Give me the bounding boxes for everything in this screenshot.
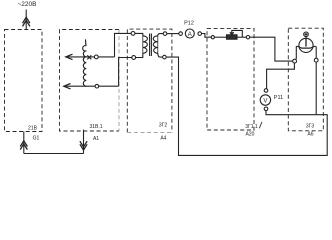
ammeter P12 xyxy=(185,29,194,38)
rheostat R1 body xyxy=(227,35,238,39)
node terminal circle rheostat right xyxy=(246,36,249,39)
wire to tube drop xyxy=(250,37,293,61)
transformer T2 core xyxy=(150,34,152,57)
wire primary top lead xyxy=(135,33,143,35)
wire rheostat right xyxy=(237,36,246,38)
svg-text:А6: А6 xyxy=(307,132,313,138)
block A6 dashed box (tube unit) xyxy=(288,28,323,131)
wire mains bottom xyxy=(24,153,84,155)
tube VL1 anode plus terminal xyxy=(304,32,309,38)
svg-text:А1: А1 xyxy=(93,136,99,142)
wire mains riser left with plug arrow xyxy=(20,132,27,154)
svg-text:А4: А4 xyxy=(160,136,166,142)
wire mains riser right with plug arrow xyxy=(80,130,87,154)
rheostat R1 wiper tap xyxy=(230,30,242,37)
tube VL1 left lead xyxy=(295,46,297,59)
wire secondary bottom lead xyxy=(158,53,163,57)
wire riser2 to primary bottom xyxy=(119,58,132,87)
wire riser to primary top xyxy=(115,33,132,57)
tube VL1 envelope xyxy=(299,38,313,52)
svg-text:3Г2: 3Г2 xyxy=(159,123,167,129)
wire to ammeter xyxy=(167,33,179,35)
node terminal circle rheostat left xyxy=(211,36,214,39)
node terminal circle wiper1 xyxy=(94,55,98,59)
node terminal circle tube cathode right xyxy=(314,58,318,62)
svg-text:31В.1: 31В.1 xyxy=(89,124,102,130)
svg-text:V: V xyxy=(263,98,267,104)
svg-text:А20: А20 xyxy=(246,132,255,138)
block A20 dashed box (rheostat unit) xyxy=(207,28,254,130)
wire voltmeter bottom return xyxy=(166,57,327,155)
autotransformer wiper 1 arrow xyxy=(66,54,95,59)
svg-text:A: A xyxy=(188,32,192,38)
node terminal circle secondary bottom xyxy=(163,55,167,59)
wire secondary top lead xyxy=(158,34,163,36)
transformer T2 primary winding xyxy=(143,36,148,54)
svg-text:21В: 21В xyxy=(28,126,38,132)
block A4 dashed box (transformer unit) xyxy=(127,29,172,132)
tube VL1 anode electrode xyxy=(305,38,307,46)
autotransformer wiper 2 line xyxy=(64,84,95,89)
node terminal circle secondary top xyxy=(163,32,167,36)
wire to rheostat xyxy=(214,36,226,38)
node terminal circle primary top xyxy=(131,32,135,36)
node terminal circle ammeter right xyxy=(198,32,202,36)
svg-text:3Г3: 3Г3 xyxy=(306,123,314,129)
block G1 dashed box xyxy=(5,30,43,132)
svg-text:3Г1.1: 3Г1.1 xyxy=(245,124,258,130)
node terminal circle voltmeter top xyxy=(264,89,268,93)
connector arrow X1 to mains xyxy=(23,10,30,30)
svg-text:Р12: Р12 xyxy=(184,21,194,27)
wire wiper1 to riser xyxy=(98,56,114,58)
svg-text:Р11: Р11 xyxy=(274,95,283,101)
wire primary bottom lead xyxy=(136,53,143,57)
tube VL1 right lead xyxy=(315,46,317,58)
node terminal circle tube cathode left xyxy=(293,59,297,63)
node terminal circle wiper2 xyxy=(95,84,99,88)
svg-text:~220В: ~220В xyxy=(18,1,37,8)
node terminal circle primary bottom xyxy=(132,56,136,60)
tube VL1 cathode bar and side leads xyxy=(296,46,315,48)
wire tube right lead down xyxy=(315,62,317,115)
transformer T2 secondary winding xyxy=(153,36,158,54)
block A1 dashed box (autotransformer unit) xyxy=(60,30,120,132)
autotransformer T1 winding xyxy=(83,39,87,86)
svg-text:G1: G1 xyxy=(33,136,40,142)
wire ammeter to rheostat box xyxy=(202,34,212,38)
node terminal circle voltmeter bottom xyxy=(264,107,268,111)
wire wiper2 to riser2 xyxy=(99,85,119,87)
wire cathode left to voltmeter xyxy=(267,63,295,89)
voltmeter P11 xyxy=(260,95,270,105)
node terminal circle ammeter left xyxy=(179,32,183,36)
